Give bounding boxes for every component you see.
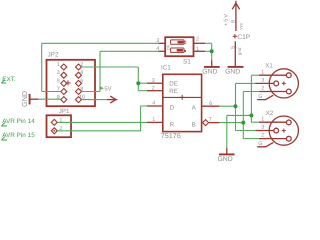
- svg-text:GND: GND: [202, 69, 217, 76]
- connector JP2 pin 8: [76, 89, 82, 95]
- svg-text:IC1: IC1: [161, 65, 171, 72]
- connector X2 shield pin G: [257, 142, 273, 146]
- ground symbol of IC1P: [225, 67, 243, 76]
- svg-text:6: 6: [209, 101, 212, 107]
- connector X2 (DIN socket) body: [269, 116, 298, 145]
- connector JP2 pin 9: [61, 97, 67, 103]
- svg-text:+5V: +5V: [101, 86, 112, 92]
- wire EXT net vertical: [41, 43, 43, 91]
- wire gnd net horizontal: [227, 114, 252, 116]
- svg-text:3: 3: [261, 78, 264, 84]
- svg-text:2: 2: [196, 36, 199, 42]
- svg-text:+5V: +5V: [223, 13, 229, 26]
- ic IC1 pin 6 A stub: [202, 105, 220, 107]
- ic IC1 pin 3 DE stub: [147, 82, 163, 84]
- wire net B vertical: [242, 92, 244, 139]
- wire S1 pin 1 to gnd: [205, 50, 212, 52]
- wire EXT net horizontal to S1 pin 3: [42, 42, 159, 44]
- svg-text:1: 1: [196, 47, 199, 53]
- connector JP2 pin 1: [61, 64, 67, 70]
- wire net A to X2 pin 3: [236, 130, 256, 132]
- wire net A vertical: [235, 83, 237, 130]
- power gate IC1P origin cross: [233, 34, 238, 39]
- connector X2 pin 2 stub: [259, 138, 286, 140]
- svg-text:G: G: [258, 141, 262, 147]
- wire gnd net vertical at X1: [250, 75, 252, 115]
- connector X1 shield pin G: [257, 95, 273, 99]
- junction at S1 gnd: [210, 49, 214, 53]
- ic IC1 pin numbers: [152, 78, 213, 123]
- dip switch S1 pin numbers: [156, 36, 199, 52]
- junction at net A: [234, 104, 238, 108]
- svg-text:8: 8: [231, 20, 237, 23]
- svg-text:X2: X2: [266, 110, 274, 117]
- svg-text:7: 7: [209, 117, 212, 123]
- net label AVR Pin 15: [1, 132, 35, 140]
- svg-text:2: 2: [261, 86, 264, 92]
- ic IC1 pin 7 B stub with diamond: [203, 120, 209, 126]
- wire +5V net into JP2 pin 8: [82, 91, 101, 93]
- wire +5V net vertical: [99, 51, 101, 91]
- dip switch S1 pin 1 stub: [194, 50, 206, 52]
- dip switch S1 pin 2 stub: [194, 42, 206, 44]
- svg-text:C1P: C1P: [237, 34, 250, 41]
- svg-text:JP2: JP2: [48, 52, 59, 59]
- svg-text:S1: S1: [183, 59, 191, 66]
- net label EXT.: [1, 76, 16, 83]
- wire into IC1 DE: [138, 82, 147, 84]
- connector JP2 (2x5 pin header) body: [47, 60, 96, 106]
- svg-text:EXT.: EXT.: [2, 76, 16, 83]
- power gate IC1P pin 5 gnd line: [234, 41, 236, 66]
- svg-text:AVR Pin 14: AVR Pin 14: [2, 118, 35, 125]
- connector JP1 pin 1: [51, 119, 57, 125]
- wire into IC1 RE: [138, 90, 147, 92]
- svg-text:1: 1: [57, 62, 60, 68]
- connector X1 pin numbers: [258, 69, 264, 100]
- wire +5V net from S1 pin 4: [100, 50, 159, 52]
- svg-text:1: 1: [152, 117, 155, 123]
- connector JP1 (2 pin header) body: [47, 115, 72, 137]
- dip switch S1 body: [165, 37, 193, 56]
- ground symbol below S1: [202, 60, 219, 75]
- wire JP2 pin 2 horizontal: [82, 66, 139, 68]
- wire net A to X1 pin 3: [236, 82, 256, 84]
- connector JP2 pin 6: [76, 80, 82, 86]
- svg-text:X1: X1: [265, 62, 273, 69]
- wire net A from IC1 pin 6: [220, 105, 236, 107]
- connector JP1 pin 2: [51, 128, 57, 134]
- svg-text:AVR Pin 15: AVR Pin 15: [2, 132, 35, 139]
- svg-text:R: R: [170, 121, 175, 128]
- connector X2 pin 1 stub: [259, 121, 286, 123]
- svg-text:GND: GND: [20, 91, 29, 107]
- svg-text:GND: GND: [218, 156, 233, 163]
- svg-text:75176: 75176: [161, 131, 181, 140]
- svg-text:G: G: [258, 94, 262, 100]
- dip switch S1 pin 4 stub: [159, 50, 166, 52]
- wire vertical down to DE/RE: [137, 67, 139, 91]
- wire gnd net vertical to ground: [226, 115, 228, 147]
- svg-text:5: 5: [57, 78, 60, 84]
- connector JP2 pin 2: [76, 64, 82, 70]
- wire EXT net into JP2 pin 7: [42, 91, 61, 93]
- wire JP2 pin 10 to +5V arrow: [82, 99, 108, 101]
- wire net B to X2 pin 2: [243, 138, 259, 140]
- net label AVR Pin 14: [1, 118, 35, 126]
- wire JP1 pin 2 to IC1 D: [57, 106, 147, 131]
- svg-text:gnd: gnd: [237, 47, 242, 55]
- svg-text:2: 2: [152, 85, 155, 91]
- power gate IC1P +5V supply arrow: [232, 1, 239, 31]
- connector JP2 pin numbers: [57, 62, 85, 101]
- svg-text:3: 3: [152, 78, 155, 84]
- connector X1 pin 1 stub: [259, 74, 286, 76]
- ic IC1 pin 4 D stub: [147, 105, 163, 107]
- ic IC1 pin 1 R stub: [147, 121, 163, 123]
- ic IC1 75176 body: [163, 74, 202, 131]
- connector JP1 pin numbers: [59, 118, 62, 132]
- wire JP1 pin 1 to IC1 R: [57, 121, 147, 123]
- junction at X pin1 gnd net: [249, 113, 253, 117]
- wire net B to X1 pin 2: [243, 91, 259, 93]
- connector X1 (DIN socket) body: [269, 69, 298, 98]
- connector X1 pin 2 stub: [259, 91, 286, 93]
- svg-text:ON: ON: [167, 44, 171, 50]
- wire S1 gnd vertical: [211, 43, 213, 60]
- wire gnd net jog to X2 pin 1: [251, 115, 259, 122]
- svg-text:4: 4: [80, 70, 83, 76]
- svg-text:5: 5: [230, 46, 236, 49]
- svg-text:3: 3: [57, 70, 60, 76]
- ic IC1 pin 2 RE stub: [147, 90, 163, 92]
- dip switch S1 pin 3 stub: [159, 42, 166, 44]
- connector JP2 pin 5: [61, 80, 67, 86]
- wire gnd net to X1 pin 1: [251, 74, 259, 76]
- svg-text:RE: RE: [169, 88, 178, 95]
- connector JP2 pin 7: [61, 89, 67, 95]
- connector JP2 origin cross: [66, 80, 71, 85]
- svg-text:JP1: JP1: [59, 108, 70, 115]
- svg-text:3: 3: [261, 125, 264, 131]
- svg-text:1: 1: [261, 69, 264, 75]
- connector JP2 pin 10: [76, 97, 82, 103]
- svg-text:D: D: [170, 104, 175, 111]
- wire S1 pin 2 to gnd: [205, 42, 212, 44]
- ic IC1 pin name labels: [169, 80, 196, 128]
- junction at net B: [241, 121, 245, 125]
- net label +5V on S1/JP2 net: [100, 86, 112, 92]
- connector X1 pin 3 stub: [255, 82, 273, 84]
- connector X2 pin numbers: [258, 116, 264, 147]
- svg-text:vcc: vcc: [239, 22, 244, 30]
- ground symbol left of JP2: [20, 91, 39, 107]
- svg-text:1: 1: [261, 116, 264, 122]
- power gate IC1P labels: [223, 13, 250, 55]
- svg-text:B: B: [192, 121, 196, 128]
- wire net B from IC1 pin 7: [220, 122, 244, 124]
- +5V supply arrow at JP2 pin 10: [107, 96, 117, 103]
- connector JP2 pin 4: [76, 72, 82, 78]
- wire ground to JP2 pin 9: [39, 98, 61, 100]
- junction at DE/RE branch: [136, 81, 140, 85]
- svg-text:GND: GND: [225, 69, 240, 76]
- svg-text:6: 6: [80, 78, 83, 84]
- connector X2 pin 3 stub: [255, 130, 273, 132]
- ground symbol below X connectors net: [218, 148, 235, 163]
- connector JP2 pin 3: [61, 72, 67, 78]
- svg-text:4: 4: [152, 101, 155, 107]
- svg-text:DE: DE: [169, 80, 178, 87]
- svg-text:2: 2: [261, 133, 264, 139]
